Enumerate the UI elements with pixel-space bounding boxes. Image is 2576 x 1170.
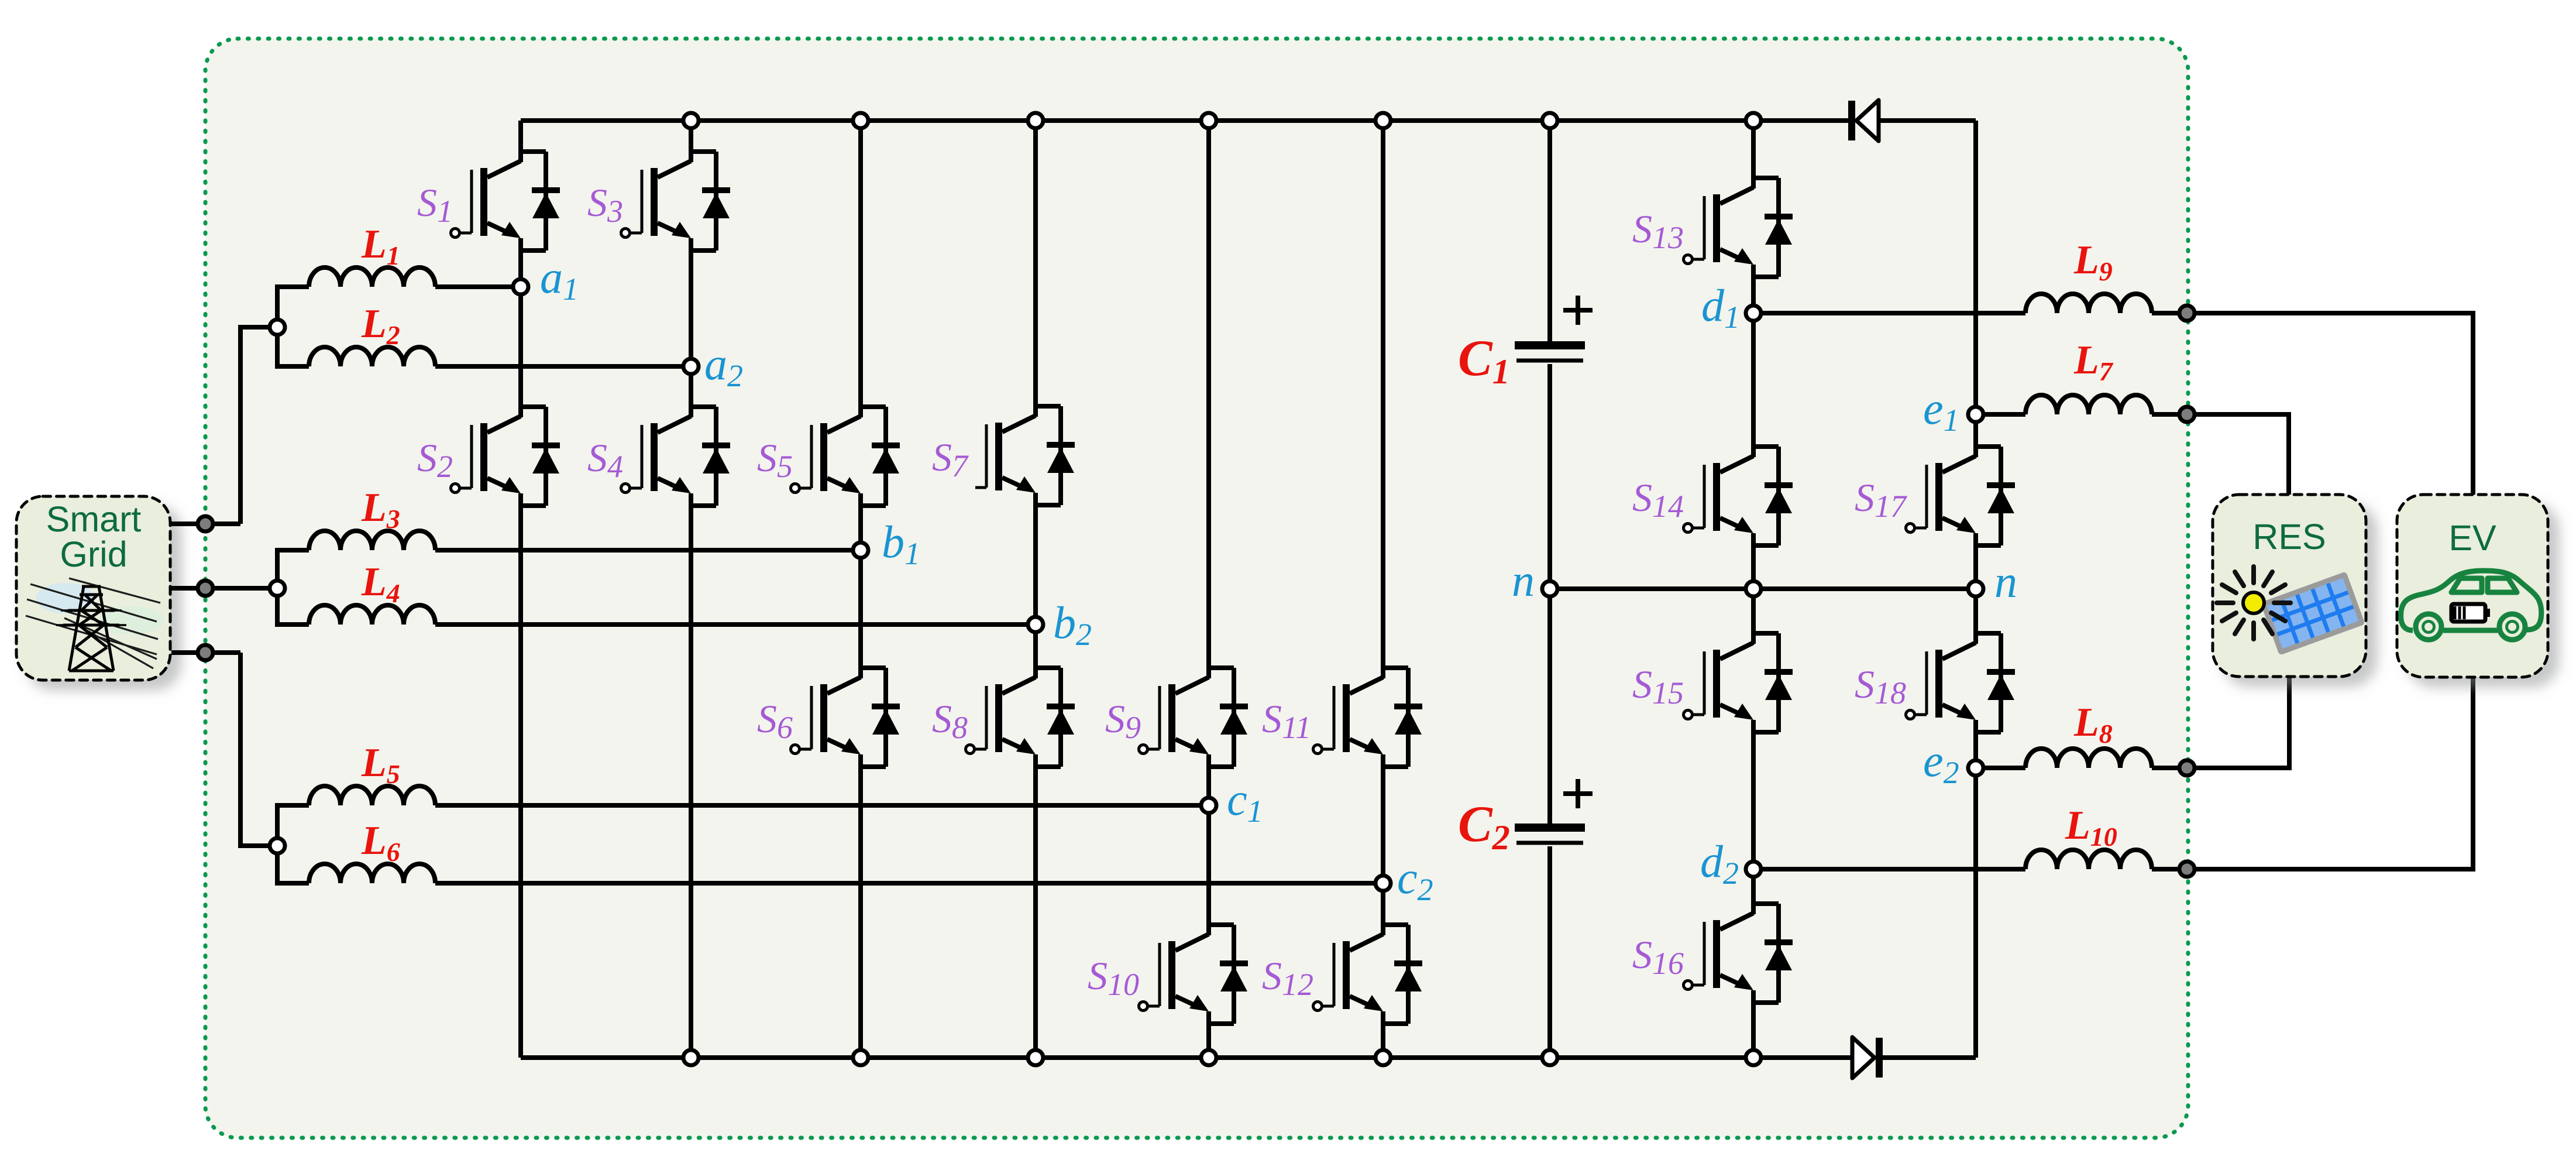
diode top (bus, cathode left) <box>1852 100 1879 141</box>
svg-text:n: n <box>1994 556 2017 607</box>
svg-text:RES: RES <box>2252 517 2326 557</box>
gate terminal of S8 <box>966 745 975 754</box>
svg-text:n: n <box>1512 555 1535 606</box>
grid phase A terminal node <box>198 516 213 531</box>
inductor L5 <box>309 786 435 805</box>
node n d-rail <box>1746 581 1761 596</box>
transistor S17 (IGBT with antiparallel diode) <box>1915 447 2015 545</box>
svg-text:EV: EV <box>2448 518 2496 558</box>
sun icon <box>2217 567 2290 639</box>
wire: grid phase C stub <box>171 650 240 655</box>
inductor L9 <box>2025 294 2152 313</box>
solar panel icon <box>2260 571 2365 656</box>
wire: grid phase B stub <box>171 586 240 591</box>
node e1 <box>1968 407 1983 422</box>
node bottom bus x=2997 <box>1746 1050 1761 1065</box>
node a2 <box>683 359 699 374</box>
inductor L1 <box>309 267 435 287</box>
wire: L5 branch <box>277 805 1209 838</box>
gate terminal of S14 <box>1684 524 1693 533</box>
transistor S10 (IGBT with antiparallel diode) <box>1148 925 1248 1024</box>
transistor S7 (IGBT with antiparallel diode) <box>975 406 1075 505</box>
transistor S11 (IGBT with antiparallel diode) <box>1323 668 1422 767</box>
terminal L8/RES (gray) <box>2179 760 2195 776</box>
node a1 <box>513 279 528 294</box>
node phase C split <box>270 838 285 853</box>
wire: leg a2 rail (S3/S4) <box>689 121 693 1058</box>
inductor L7 <box>2025 395 2152 414</box>
transistor S18 (IGBT with antiparallel diode) <box>1915 633 2015 732</box>
gate terminal of S15 <box>1684 711 1693 719</box>
transistor S2 (IGBT with antiparallel diode) <box>460 407 560 506</box>
node top bus x=1770 <box>1028 113 1043 128</box>
transistor S15 (IGBT with antiparallel diode) <box>1693 633 1793 732</box>
wire: d1 to L9 to EV top <box>1753 313 2473 495</box>
wire: phase C feeder <box>240 653 270 846</box>
terminal L7/RES (gray) <box>2179 407 2195 422</box>
gate terminal of S16 <box>1684 981 1693 990</box>
gate terminal of S10 <box>1139 1002 1148 1011</box>
inductor L3 <box>309 531 435 550</box>
wire: L6 branch <box>277 853 1383 883</box>
node b1 <box>853 543 868 558</box>
wire: leg d rail (S13-S16) <box>1751 121 1756 1058</box>
transistor S13 (IGBT with antiparallel diode) <box>1693 178 1793 277</box>
node d1 <box>1746 306 1761 321</box>
node c2 <box>1375 876 1391 891</box>
svg-text:Smart: Smart <box>46 499 142 539</box>
node top bus x=1181 <box>683 113 699 128</box>
gate terminal of S11 <box>1313 745 1322 754</box>
node c1 <box>1201 798 1216 813</box>
svg-text:Grid: Grid <box>60 534 127 574</box>
gate terminal of S3 <box>621 229 630 238</box>
EV battery icon <box>2451 604 2490 622</box>
converter enclosure (green dashed rounded box) <box>205 39 2188 1138</box>
gate terminal of S18 <box>1906 711 1915 719</box>
transistor S16 (IGBT with antiparallel diode) <box>1693 904 1793 1003</box>
gate terminal of S13 <box>1684 255 1693 264</box>
inductor L8 <box>2025 749 2152 768</box>
wire: L2 branch <box>277 335 691 366</box>
wire: L4 branch <box>277 596 1036 625</box>
wire: L3 branch <box>277 550 861 581</box>
transmission tower icon <box>26 578 164 671</box>
wire: e1 to L7 to RES top <box>1976 414 2289 495</box>
transistor S8 (IGBT with antiparallel diode) <box>975 668 1075 767</box>
grid phase C terminal node <box>198 645 213 660</box>
wire: phase A feeder <box>240 327 270 524</box>
node bottom bus x=1471 <box>853 1050 868 1065</box>
wire: capacitor rail (C1/C2) <box>1547 121 1552 1058</box>
node top bus x=2997 <box>1746 113 1761 128</box>
gate terminal of S12 <box>1313 1002 1322 1011</box>
transistor S12 (IGBT with antiparallel diode) <box>1323 925 1422 1024</box>
wire: L1 branch <box>277 287 521 320</box>
node b2 <box>1028 617 1043 632</box>
inductor L6 <box>309 864 435 883</box>
wire: top DC bus <box>521 118 1976 123</box>
gate terminal of S2 <box>451 484 460 493</box>
transistor S14 (IGBT with antiparallel diode) <box>1693 447 1793 545</box>
EV load box <box>2397 495 2548 677</box>
grid phase B terminal node <box>198 581 213 596</box>
node bottom bus x=1181 <box>683 1050 699 1065</box>
wire: grid phase A stub <box>171 521 240 526</box>
node bottom bus x=2649 <box>1542 1050 1557 1065</box>
wire: phase B feeder <box>240 586 270 591</box>
wire: d2 to L10 to EV bottom <box>1753 677 2473 869</box>
wire: leg c1 rail (S9/S10) <box>1206 121 1211 1058</box>
transistor S5 (IGBT with antiparallel diode) <box>800 407 900 506</box>
node top bus x=2066 <box>1201 113 1216 128</box>
diode bottom (bus, cathode right) <box>1852 1037 1879 1078</box>
node bottom bus x=1770 <box>1028 1050 1043 1065</box>
inductor L10 <box>2025 850 2152 869</box>
node n capacitor rail <box>1542 581 1557 596</box>
node top bus x=1471 <box>853 113 868 128</box>
RES source box <box>2213 495 2366 677</box>
node d2 <box>1746 862 1761 877</box>
gate terminal of S9 <box>1139 745 1148 754</box>
wire: leg b2 rail (S7/S8) <box>1033 121 1038 1058</box>
gate terminal of S5 <box>791 484 800 493</box>
wire: leg e rail (S17/S18) <box>1973 121 1978 1058</box>
node bottom bus x=2066 <box>1201 1050 1216 1065</box>
transistor S3 (IGBT with antiparallel diode) <box>631 152 730 251</box>
terminal L10/EV (gray) <box>2179 862 2195 877</box>
inductor L2 <box>309 347 435 366</box>
transistor S4 (IGBT with antiparallel diode) <box>631 407 730 506</box>
EV car icon <box>2401 571 2541 640</box>
transistor S9 (IGBT with antiparallel diode) <box>1148 668 1248 767</box>
node phase B split <box>270 581 285 596</box>
node phase A split <box>270 320 285 335</box>
terminal L9/EV (gray) <box>2179 306 2195 321</box>
node n e-rail <box>1968 581 1983 596</box>
inductor L4 <box>309 605 435 625</box>
wire: e2 to L8 to RES bottom <box>1976 677 2289 768</box>
wire: leg a1 rail (S1/S2) <box>518 121 523 1058</box>
capacitor C2 <box>1515 779 1593 843</box>
capacitor C1 <box>1515 296 1593 361</box>
gate terminal of S4 <box>621 484 630 493</box>
node top bus x=2364 <box>1375 113 1391 128</box>
node e2 <box>1968 760 1983 776</box>
gate terminal of S6 <box>791 745 800 754</box>
wire: bottom DC bus <box>521 1055 1976 1060</box>
node bottom bus x=2364 <box>1375 1050 1391 1065</box>
wire: leg b1 rail (S5/S6) <box>858 121 863 1058</box>
transistor S6 (IGBT with antiparallel diode) <box>800 668 900 767</box>
wire: neutral n link <box>1550 586 1976 591</box>
gate terminal of S1 <box>451 229 460 238</box>
gate terminal of S17 <box>1906 524 1915 533</box>
Smart Grid source box <box>16 496 170 680</box>
node top bus x=2649 <box>1542 113 1557 128</box>
wire: leg c2 rail (S11/S12) <box>1381 121 1385 1058</box>
transistor S1 (IGBT with antiparallel diode) <box>460 152 560 251</box>
